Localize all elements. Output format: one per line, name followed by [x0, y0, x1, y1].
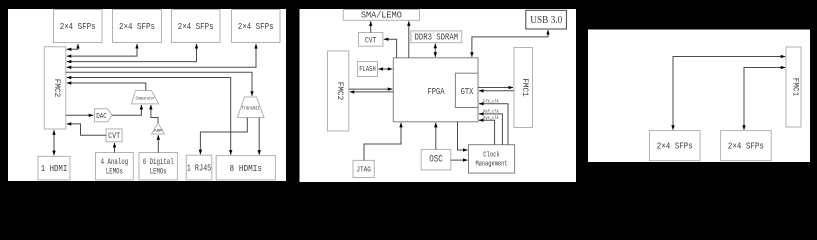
- FMC1 connector p2: [514, 48, 533, 128]
- svg-text:6 Digital: 6 Digital: [143, 157, 174, 167]
- wire FMC1-SFP p3-1: [673, 57, 785, 130]
- svg-text:GTX: GTX: [461, 87, 474, 97]
- GTX block: [455, 73, 478, 107]
- svg-text:FMC2: FMC2: [52, 79, 61, 98]
- FMC1 connector p3: [786, 47, 801, 127]
- USB 3.0 block: [526, 10, 567, 29]
- wire FMC2-transmit: [66, 72, 252, 96]
- svg-text:DDR3 SDRAM: DDR3 SDRAM: [415, 33, 459, 43]
- svg-text:Comparator: Comparator: [136, 98, 155, 102]
- wire FMC2-DAC: [66, 114, 93, 116]
- CVT block p2: [359, 33, 383, 47]
- SFP block 3: [172, 10, 221, 43]
- svg-text:Management: Management: [476, 161, 508, 169]
- wire transmit-8HDMIs: [258, 118, 260, 155]
- svg-text:1 RJ45: 1 RJ45: [187, 164, 212, 174]
- svg-text:USB 3.0: USB 3.0: [530, 15, 562, 26]
- svg-text:SMA/LEMO: SMA/LEMO: [361, 11, 402, 21]
- svg-text:8 HDMIs: 8 HDMIs: [230, 164, 263, 174]
- FPGA block: [393, 58, 478, 122]
- wire comparator-FMC2: [67, 83, 146, 91]
- 4 Analog LEMOs block: [96, 153, 134, 181]
- transmit trapezoid: [238, 97, 265, 118]
- FLASH block: [358, 62, 378, 77]
- wire GTX-FMC1: [478, 87, 513, 89]
- wire CVT-FMC2: [67, 124, 106, 135]
- wire FMC2-SFP3: [67, 44, 197, 62]
- wire transmit-RJ45: [200, 118, 247, 155]
- svg-text:1 HDMI: 1 HDMI: [41, 164, 68, 174]
- wire OSC-FPGA: [435, 123, 437, 150]
- panel 1 board: [8, 9, 286, 181]
- wire FLASH-FPGA bidirectional: [379, 68, 393, 70]
- amp triangle: [152, 123, 165, 134]
- svg-text:2×4 SFPs: 2×4 SFPs: [119, 22, 155, 32]
- OSC block: [421, 149, 451, 170]
- FMC2 connector: [44, 47, 66, 129]
- svg-text:JTAG: JTAG: [356, 167, 371, 175]
- 6 Digital LEMOs block: [139, 153, 177, 181]
- wire CVT-SMA: [370, 21, 372, 32]
- wire FMC2-SFP2: [67, 44, 137, 56]
- svg-text:Ref_clk: Ref_clk: [483, 110, 499, 115]
- svg-text:FPGA: FPGA: [428, 87, 445, 97]
- SMA/LEMO block: [343, 10, 419, 21]
- svg-text:4 Analog: 4 Analog: [101, 157, 129, 167]
- svg-text:Sys_clk: Sys_clk: [483, 116, 499, 121]
- wire Sys_clk: [479, 120, 495, 145]
- wire JTAG-FPGA: [364, 123, 401, 161]
- svg-text:FMC1: FMC1: [520, 78, 529, 97]
- DDR3 SDRAM block: [411, 31, 462, 43]
- wire DDR3-FPGA bidirectional: [434, 44, 436, 57]
- 8 HDMIs block: [216, 156, 275, 180]
- DAC pentagon: [95, 109, 113, 122]
- comparator trapezoid: [131, 91, 158, 104]
- CVT block p1: [106, 129, 122, 142]
- wire OSC-ClockMgmt: [451, 159, 468, 161]
- svg-text:FMC2: FMC2: [335, 82, 344, 101]
- svg-text:AMP: AMP: [154, 130, 163, 134]
- wire FMC2-SFP1: [67, 44, 78, 49]
- svg-text:2×4 SFPs: 2×4 SFPs: [657, 142, 693, 152]
- SFP block 4: [232, 10, 281, 43]
- svg-text:FLASH: FLASH: [359, 66, 376, 74]
- SFP block 2: [113, 10, 162, 43]
- wire FMC1-GTX: [479, 90, 514, 92]
- wire USB-FPGA: [472, 30, 548, 57]
- JTAG block: [353, 160, 374, 177]
- panel 2 board: [300, 9, 577, 182]
- SFP block p3-2: [721, 131, 772, 161]
- svg-text:2×4 SFPs: 2×4 SFPs: [728, 142, 764, 152]
- svg-text:LEMOs: LEMOs: [150, 167, 167, 177]
- svg-text:Clock: Clock: [483, 152, 500, 160]
- wire FMC2-8HDMIs: [67, 78, 231, 155]
- svg-text:2×4 SFPs: 2×4 SFPs: [60, 22, 96, 32]
- wire FPGA-FMC2: [350, 91, 394, 93]
- wire 6digital-AMP: [157, 135, 159, 152]
- svg-text:CVT: CVT: [108, 131, 120, 141]
- 1 RJ45 block: [186, 155, 212, 180]
- wire GTX_clk: [479, 104, 508, 145]
- Clock Management block: [469, 145, 515, 173]
- wire AMP-comparator: [151, 105, 158, 123]
- FMC2 connector p2: [328, 51, 349, 131]
- SFP block p3-1: [650, 131, 701, 161]
- wire FPGA-CVT: [384, 39, 397, 58]
- wire 4analog-CVT: [114, 143, 116, 153]
- svg-text:DAC: DAC: [96, 113, 107, 121]
- SFP block 1: [54, 10, 103, 43]
- svg-text:OSC: OSC: [429, 155, 443, 166]
- wire FMC2-1HDMI: [53, 130, 55, 155]
- wire Ref_clk: [479, 114, 502, 145]
- svg-text:2×4 SFPs: 2×4 SFPs: [238, 22, 274, 32]
- svg-text:Transmit: Transmit: [241, 106, 260, 112]
- wire FPGA-ClockMgmt: [458, 122, 468, 150]
- wire DAC-comparator: [112, 105, 141, 115]
- svg-text:2×4 SFPs: 2×4 SFPs: [178, 22, 214, 32]
- wire FPGA-SMA: [408, 21, 410, 58]
- svg-text:CVT: CVT: [365, 35, 377, 45]
- 1 HDMI block: [38, 156, 70, 180]
- svg-text:FMC1: FMC1: [791, 78, 800, 97]
- svg-text:GTX_clk: GTX_clk: [483, 100, 499, 105]
- wire FMC2-SFP4: [67, 44, 256, 67]
- wire FMC1-SFP p3-2: [744, 68, 785, 130]
- panel 3 board: [588, 30, 810, 163]
- wire FMC2-FPGA: [349, 88, 393, 90]
- svg-text:LEMOs: LEMOs: [106, 167, 123, 177]
